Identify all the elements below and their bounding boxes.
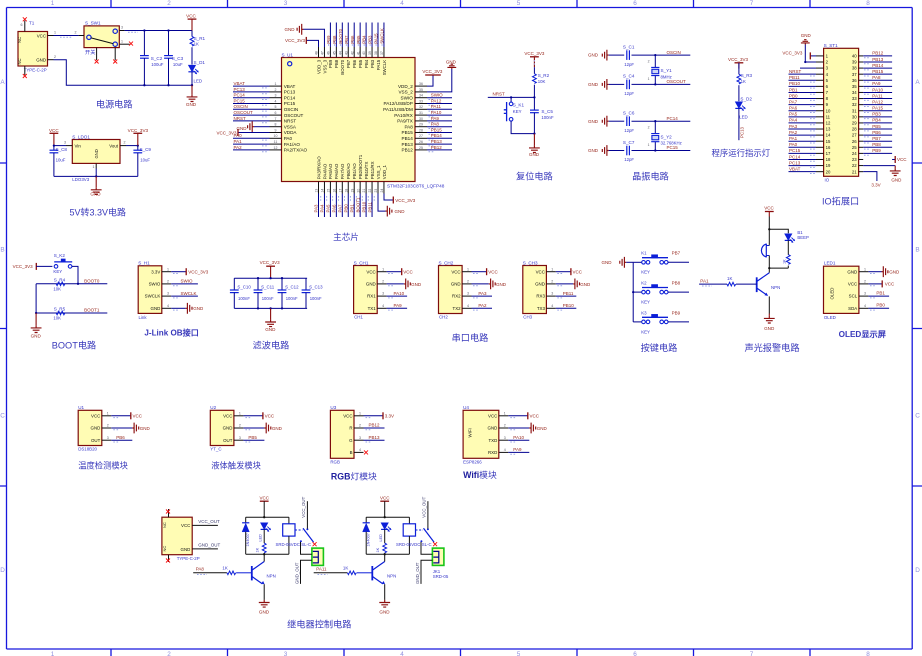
power VCC U4.1 [508,415,528,417]
svg-text:24: 24 [852,151,857,156]
svg-text:S_R5: S_R5 [54,307,66,312]
pin ST1.27 [859,134,864,136]
svg-text:BEEP: BEEP [797,235,809,240]
wire net PB3 ST1 [863,116,892,118]
svg-text:PA7: PA7 [789,99,798,104]
svg-text:36: 36 [852,78,857,83]
svg-text:PA4: PA4 [789,118,798,123]
svg-text:PA15: PA15 [376,59,381,70]
svg-text:PB8: PB8 [332,35,337,44]
wire net PB5 ST1 [863,128,892,130]
svg-text:SRD-05VDC-SL-C: SRD-05VDC-SL-C [276,542,312,547]
svg-text:VCC: VCC [181,523,190,528]
capacitor S_C1 12pF [626,50,628,60]
svg-text:PB14: PB14 [431,133,443,138]
svg-text:PA6/AO: PA6/AO [334,163,339,179]
pin ST1.13 [816,128,824,130]
svg-text:2: 2 [239,424,241,428]
svg-text:GND: GND [801,33,812,38]
svg-text:PA3: PA3 [478,291,487,296]
svg-text:S_CH2: S_CH2 [439,260,454,265]
svg-text:29: 29 [419,123,423,127]
svg-text:PC15: PC15 [667,145,679,150]
svg-text:S_CH1: S_CH1 [354,260,369,265]
svg-text:PB11: PB11 [367,202,372,213]
svg-text:PB11/RX: PB11/RX [370,161,375,179]
svg-text:7: 7 [750,651,754,656]
svg-text:3: 3 [107,436,109,440]
svg-text:GND: GND [379,610,390,615]
wire net PA4 bottom [323,194,325,218]
svg-text:VBAT: VBAT [284,84,296,89]
svg-text:PA8: PA8 [872,75,881,80]
pin U1.9 VDDA [270,132,282,134]
pin U1.14 PA4/AO [323,182,325,194]
pin ST1.38 [859,67,864,69]
pin U1.35 VSS_2 [415,91,427,93]
svg-text:1: 1 [504,411,506,415]
svg-text:KEY: KEY [641,300,650,305]
power 3.3V U3.1 [364,415,384,417]
svg-text:S_C2: S_C2 [151,56,163,61]
resistor 1K of alarm base [727,282,736,286]
svg-text:3: 3 [864,292,866,296]
svg-text:LED: LED [739,115,748,120]
wire OSCIN row [632,54,691,56]
wire T1.2 to ground rail [54,60,193,85]
wire net PB12 ST1 [863,55,892,57]
wire resistor to base [736,283,757,285]
svg-text:PB11: PB11 [563,291,574,296]
svg-text:PA2: PA2 [789,130,798,135]
svg-text:S_R2: S_R2 [538,73,550,78]
ground GND U1.2 [111,427,132,429]
svg-text:DS18B20: DS18B20 [78,447,97,452]
svg-text:GND: GND [91,426,101,431]
svg-text:9: 9 [275,128,277,132]
pin U1.45 PB8 [335,47,337,58]
svg-text:28: 28 [852,127,857,132]
svg-text:4: 4 [382,304,384,308]
svg-text:S_C3: S_C3 [172,56,184,61]
pin U1.10 PA0 [270,137,282,139]
wire net PA9 S_CH1.4 [387,307,408,309]
svg-text:RX2: RX2 [452,294,461,299]
svg-text:7: 7 [750,0,754,7]
svg-text:35: 35 [419,88,423,92]
svg-text:VCC_3V3: VCC_3V3 [188,270,209,275]
wire LDO in [54,145,66,147]
svg-text:S_C4: S_C4 [623,74,635,79]
svg-text:GND: GND [36,58,46,63]
wire net GND_OUT relay PA11 [421,560,432,584]
svg-text:PB0: PB0 [343,204,348,213]
svg-text:100nF: 100nF [238,296,250,301]
svg-text:VDD_3: VDD_3 [316,59,321,74]
wire net PC15 ST1 [789,152,817,154]
wire key to cap bottom [511,121,534,134]
pin ST1.17 [816,152,824,154]
svg-text:VCC_3V3: VCC_3V3 [782,50,803,55]
svg-text:PB5: PB5 [358,59,363,68]
wire net PB5 top [359,23,361,48]
svg-text:40: 40 [852,54,857,59]
capacitor S_C2 100uF [143,31,145,56]
ground VSS_2 right [427,69,452,92]
power VCC U2.1 [243,415,263,417]
svg-text:1: 1 [864,267,866,271]
power VCC_3V3 VDDA left [238,132,270,134]
svg-text:1: 1 [51,651,55,656]
svg-text:S_C6: S_C6 [623,111,635,116]
svg-text:J-Link OB接口: J-Link OB接口 [144,327,198,337]
svg-text:S_ST1: S_ST1 [824,43,838,48]
wire filter top rail [234,277,307,279]
svg-text:GND: GND [451,282,461,287]
svg-text:PB13: PB13 [369,435,381,440]
svg-text:36: 36 [419,82,423,86]
key K1 KEY [633,261,641,263]
key K2 KEY [633,291,641,293]
svg-text:声光报警电路: 声光报警电路 [744,342,799,353]
svg-text:PA8: PA8 [404,124,413,129]
svg-text:28: 28 [419,128,423,132]
diode 1N4007 PA8 [245,517,247,522]
svg-text:18: 18 [826,157,831,162]
svg-text:1: 1 [54,31,56,35]
wire net NRST [233,120,270,122]
svg-text:RGB灯模块: RGB灯模块 [331,470,377,481]
ground GND S_CH2.2 [472,283,489,285]
wire net PA8 [427,126,452,128]
svg-text:12pF: 12pF [624,128,634,133]
pin ST1.36 [859,79,864,81]
svg-text:GND: GND [847,269,857,274]
pin ST1.21 [859,171,864,173]
svg-text:PA9/TX: PA9/TX [397,119,413,124]
pin U1.21 PB10/TX [365,182,367,194]
svg-text:BOOT0: BOOT0 [340,59,345,74]
svg-text:3.3V: 3.3V [385,414,394,419]
relay coil PA11 [408,517,410,524]
svg-text:13: 13 [826,127,831,132]
pin U1.22 PB11/RX [371,182,373,194]
svg-text:PB12: PB12 [872,51,884,56]
module U2 body [210,410,234,445]
svg-text:PC14: PC14 [667,116,679,121]
svg-text:S_R1: S_R1 [194,36,206,41]
svg-text:2: 2 [359,424,361,428]
wire resistor to base PA11 [357,572,373,574]
wire net OSCIN [233,108,270,110]
svg-text:Vin: Vin [75,143,82,148]
svg-text:3: 3 [467,292,469,296]
svg-text:PB5: PB5 [248,435,257,440]
module U4 body [463,410,499,458]
wire net PB15 ST1 [863,73,892,75]
pin U1.29 PA8 [415,126,427,128]
svg-text:17: 17 [826,151,831,156]
svg-text:SDA: SDA [848,306,857,311]
wire net PA5 ST1 [789,116,817,118]
LED alarm [785,234,795,243]
wire net PA6 bottom [335,194,337,218]
svg-text:14: 14 [321,189,325,193]
svg-text:NRST: NRST [493,91,506,96]
node ground rail junctions [143,84,145,86]
svg-text:NRST: NRST [284,119,297,124]
svg-text:PA0: PA0 [789,142,798,147]
svg-text:PB7: PB7 [872,136,881,141]
ground GND ST1.2 [805,45,816,63]
capacitor S_C9 10uF [137,146,139,151]
wire net PC13 [233,91,270,93]
pin SW1 bottom stubs no-connect [96,48,98,60]
diode 1N4007 PA11 [365,517,367,522]
pin ST1.24 [859,152,864,154]
svg-text:U1: U1 [78,405,84,410]
svg-text:U4: U4 [463,405,469,410]
svg-text:CH1: CH1 [354,315,363,320]
pin ST1.2 [816,61,824,63]
pin ST1.37 [859,73,864,75]
wire net PB6 ST1 [863,134,892,136]
pin T1.2 GND [48,59,54,61]
pin U1.25 PB12 [415,149,427,151]
svg-text:4: 4 [864,304,866,308]
svg-text:30: 30 [852,114,857,119]
svg-text:4: 4 [275,99,277,103]
svg-text:K3: K3 [641,310,647,315]
svg-text:LED: LED [194,78,203,83]
frame row letters [0,79,920,574]
pin LDO1.1 GND [95,163,97,168]
svg-text:PA10: PA10 [394,291,405,296]
svg-text:6: 6 [275,111,277,115]
svg-text:1K: 1K [727,276,732,281]
svg-text:STM32F103C8T6_LQFP48: STM32F103C8T6_LQFP48 [387,184,445,189]
pin U1.47 VSS_3 [323,47,325,58]
svg-text:PB6: PB6 [872,130,881,135]
svg-text:2: 2 [107,424,109,428]
svg-text:4: 4 [400,0,404,7]
svg-text:PA9: PA9 [872,81,881,86]
svg-text:GND: GND [588,119,599,124]
pin ST1.16 [816,146,824,148]
svg-text:4: 4 [504,448,506,452]
capacitor S_C6 12pF [626,116,628,126]
svg-text:40: 40 [362,51,366,55]
svg-text:1: 1 [648,77,650,81]
pin ST1.3 [816,67,824,69]
svg-text:10K: 10K [53,286,61,291]
svg-text:4: 4 [167,304,169,308]
pin ST1.15 [816,140,824,142]
svg-text:10K: 10K [538,79,546,84]
wire net PA8 ST1 [863,79,892,81]
svg-text:JK1: JK1 [433,569,441,574]
ground GND U2.2 [243,427,264,429]
key S_K1 KEY [510,97,512,102]
svg-text:11: 11 [826,114,831,119]
svg-text:GND: GND [259,610,270,615]
ground GND ST1.22 [863,165,895,167]
wire net SWCLK top [383,23,385,48]
pin U1.5 OSCIN [270,108,282,110]
LED of relay PA11 [381,523,391,532]
svg-text:VCC: VCC [91,413,100,418]
connector S_ST1 body [824,48,859,176]
svg-text:PB12: PB12 [369,423,381,428]
svg-text:3: 3 [239,436,241,440]
svg-text:PA1: PA1 [789,136,798,141]
svg-text:TYPE-C-2P: TYPE-C-2P [177,556,200,561]
wire net PB7 key [668,261,689,263]
wire filter bottom rail [234,307,307,309]
svg-text:PB1: PB1 [876,290,885,295]
svg-text:滤波电路: 滤波电路 [253,340,290,351]
svg-text:2: 2 [75,31,77,35]
svg-text:S_C5: S_C5 [541,109,553,114]
svg-text:PB1/AO: PB1/AO [352,163,357,179]
ground VSS_1 bottom [378,194,386,212]
svg-text:37: 37 [380,51,384,55]
svg-text:GND: GND [186,102,197,107]
svg-text:OLED: OLED [824,315,836,320]
svg-text:S_C8: S_C8 [56,147,68,152]
svg-text:LED1: LED1 [824,260,836,265]
buzzer B1 BEEP [761,244,769,258]
power VCC S_CH3.1 [556,271,571,273]
svg-text:PA10: PA10 [513,435,524,440]
pin U1.30 PA9/TX [415,120,427,122]
pin U1.13 PA3/RX/AO [318,182,320,194]
svg-text:LED: LED [379,534,383,542]
pin ST1.18 [816,158,824,160]
pin ST1.31 [859,110,864,112]
svg-text:2: 2 [275,88,277,92]
svg-text:GND: GND [537,426,548,431]
svg-text:10: 10 [274,134,278,138]
relay output connector PA11 [432,548,444,565]
svg-text:CH2: CH2 [439,315,448,320]
svg-text:GND: GND [580,282,591,287]
ground GND H1.4 [171,307,185,309]
svg-text:A: A [915,79,920,86]
svg-text:S_C11: S_C11 [261,284,275,289]
svg-text:TX2: TX2 [453,306,462,311]
svg-text:VCC_3V3: VCC_3V3 [128,128,149,133]
svg-text:继电器控制电路: 继电器控制电路 [287,618,351,629]
wire net PB1 bottom [353,194,355,218]
capacitor S_C4 12pF [626,80,628,90]
svg-text:VCC: VCC [403,270,413,275]
svg-text:PA5/AO: PA5/AO [328,163,333,179]
wire net PC13 ST1 [789,165,817,167]
svg-text:KEY: KEY [641,329,650,334]
svg-text:PA12: PA12 [872,99,883,104]
svg-text:VCC: VCC [37,33,46,38]
svg-text:8: 8 [866,0,870,7]
pin U1.42 PB6 [353,47,355,58]
wire net PA3 bottom [318,194,320,218]
svg-text:1: 1 [51,0,55,7]
svg-text:2: 2 [54,55,56,59]
power VCC ST1.23 [892,158,895,160]
wire net PB15 [427,132,452,134]
svg-text:S_LDO1: S_LDO1 [72,134,90,139]
svg-text:34: 34 [852,90,857,95]
capacitor S_C11 100nF [257,278,259,290]
svg-text:SWCLK: SWCLK [380,28,385,44]
pin U1.48 VDD_3 [318,47,320,58]
wire net OSCOUT [233,114,270,116]
svg-text:OSCIN: OSCIN [284,107,299,112]
wire net PC14 [233,97,270,99]
svg-text:1K: 1K [783,259,787,264]
svg-text:PA10: PA10 [431,110,442,115]
svg-text:GND: GND [488,426,498,431]
capacitor S_C8 10uF [53,146,55,151]
svg-text:1: 1 [359,411,361,415]
wire net GND_OUT T2.2 [192,548,218,550]
svg-text:S_C10: S_C10 [237,284,251,289]
svg-text:NPN: NPN [267,573,276,578]
svg-text:复位电路: 复位电路 [516,171,553,182]
svg-text:NPN: NPN [771,285,780,290]
pin ST1.4 [816,73,824,75]
svg-text:PA2: PA2 [478,303,487,308]
svg-text:10uF: 10uF [140,158,150,163]
regulator S_LDO1 LDO3V3 [72,140,120,164]
wire emitter to gnd PA11 [384,584,386,600]
svg-text:U3: U3 [330,405,336,410]
svg-text:VCC_3V3: VCC_3V3 [524,51,545,56]
svg-text:PB3: PB3 [370,59,375,68]
relay output connector PA8 [312,548,324,565]
svg-text:VCC_3V3: VCC_3V3 [395,198,416,203]
wire ST1.3 stub [800,67,816,69]
svg-text:Vout: Vout [109,143,119,148]
svg-text:8: 8 [275,123,277,127]
pin U1.7 NRST [270,120,282,122]
svg-text:1: 1 [107,411,109,415]
svg-text:OSCIN: OSCIN [667,50,681,55]
svg-text:TX3: TX3 [537,306,546,311]
svg-text:PB10: PB10 [789,81,801,86]
net 3.3V ST1.21 [863,172,877,181]
svg-text:GND: GND [366,282,376,287]
svg-text:1K: 1K [376,547,380,552]
pin ST1.7 [816,91,824,93]
svg-text:VBAT: VBAT [789,166,801,171]
wire net PB8 top [335,23,337,48]
svg-text:19: 19 [826,163,831,168]
svg-text:PB0: PB0 [876,302,885,307]
LED of relay PA8 [261,523,271,532]
wire net PA3 S_CH2.3 [472,295,493,297]
wire net PA4 ST1 [789,122,817,124]
wire net PB9 key [668,321,689,323]
module U3 body [330,410,354,458]
connector S_CH1 body [354,266,378,314]
connector S_H1 body [138,266,162,314]
svg-text:34: 34 [419,94,423,98]
wire net PA9 [427,120,452,122]
svg-text:液体触发模块: 液体触发模块 [211,460,261,470]
svg-text:PC15: PC15 [234,98,246,103]
transistor Q1 NPN of alarm [768,268,770,273]
